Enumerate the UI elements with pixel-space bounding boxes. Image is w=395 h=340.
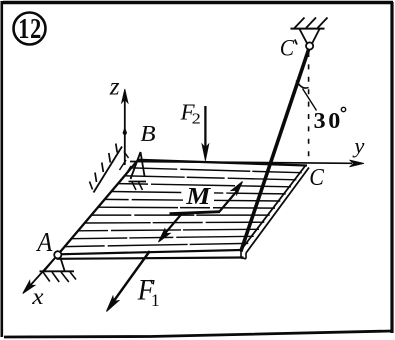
wall hatch tick 1 at B	[116, 144, 117, 153]
pin triangle at A	[40, 258, 75, 271]
label F1	[138, 280, 155, 299]
ceiling line at C'	[291, 28, 325, 30]
y axis	[130, 162, 352, 164]
z axis tick blob	[123, 128, 127, 137]
plate hatch line 7	[91, 214, 269, 216]
moment M couple bar	[170, 212, 221, 214]
ceiling hatch tick 1	[295, 18, 305, 29]
pin triangle at B	[129, 152, 147, 182]
plate hatch line 1	[131, 168, 301, 173]
x axis (collinear with plate edge AB, arrow at lower-left)	[28, 255, 59, 289]
plate hatch line 2	[125, 176, 297, 180]
plate hatch line 4	[111, 192, 285, 194]
wall hatch tick 3 at B	[102, 163, 104, 173]
border frame bottom	[4, 331, 391, 337]
ground hatch tick 4 at A	[70, 272, 76, 280]
leader line to 30 label	[303, 89, 317, 111]
plate top edge B-C	[138, 160, 308, 166]
small mark above F1	[151, 280, 153, 284]
pin circle at C'	[306, 42, 313, 49]
moment M lower arrow	[165, 214, 182, 234]
rod C' to D	[241, 50, 309, 252]
pin circle at A	[54, 251, 61, 258]
ground hatch tick 3 at A	[61, 272, 69, 282]
label C	[311, 169, 325, 185]
dashed vertical line C'-C	[308, 52, 310, 163]
border frame top	[3, 1, 393, 4]
plate right edge C-D inner	[241, 166, 306, 251]
moment M upper arrow	[220, 192, 237, 212]
plate corner D cap	[241, 250, 246, 259]
pin triangle ticks at B	[132, 182, 143, 190]
angle arc 30 deg	[296, 81, 308, 89]
white halo behind M label	[183, 187, 214, 206]
border frame left	[0, 1, 3, 337]
force F2 arrow	[204, 106, 206, 147]
wall hatch tick 2 at B	[109, 153, 111, 163]
extra tangle strokes at B	[120, 152, 132, 177]
label C'	[281, 40, 294, 56]
label M	[186, 188, 211, 204]
plate bottom edge (lower line)	[57, 258, 244, 259]
label B	[141, 126, 156, 141]
ground hatch tick 1 at A	[43, 272, 50, 282]
ground hatch tick 2 at A	[52, 272, 59, 282]
label 30 degrees	[315, 113, 340, 128]
label z	[109, 83, 119, 94]
plate hatch line 5	[105, 199, 281, 201]
border frame right	[390, 2, 393, 333]
plate hatch line 3	[118, 184, 291, 187]
plate hatch line 9	[78, 229, 259, 231]
ceiling hatch tick 2	[306, 18, 316, 29]
label A	[36, 233, 52, 251]
plate right edge C-D outer	[246, 168, 309, 254]
z axis	[124, 98, 126, 165]
plate hatch line 11	[65, 243, 249, 246]
plate hatch line 8	[85, 221, 265, 224]
plate left edge B-A	[58, 160, 138, 255]
problem number circle 12	[14, 13, 46, 45]
ceiling hatch tick 3	[318, 18, 328, 29]
plate hatch line 6	[98, 206, 275, 209]
label y	[352, 143, 364, 157]
force F1 arrow	[112, 251, 150, 304]
plate bottom edge (upper line) A-D	[58, 250, 241, 254]
label x	[32, 294, 43, 304]
pin triangle at C'	[300, 29, 320, 43]
label F2	[180, 104, 194, 119]
wall hatch tick 5 at B	[90, 182, 93, 190]
support wall line at B	[94, 147, 123, 193]
plate hatch line 10	[71, 236, 253, 238]
wall hatch tick 4 at B	[95, 173, 97, 183]
